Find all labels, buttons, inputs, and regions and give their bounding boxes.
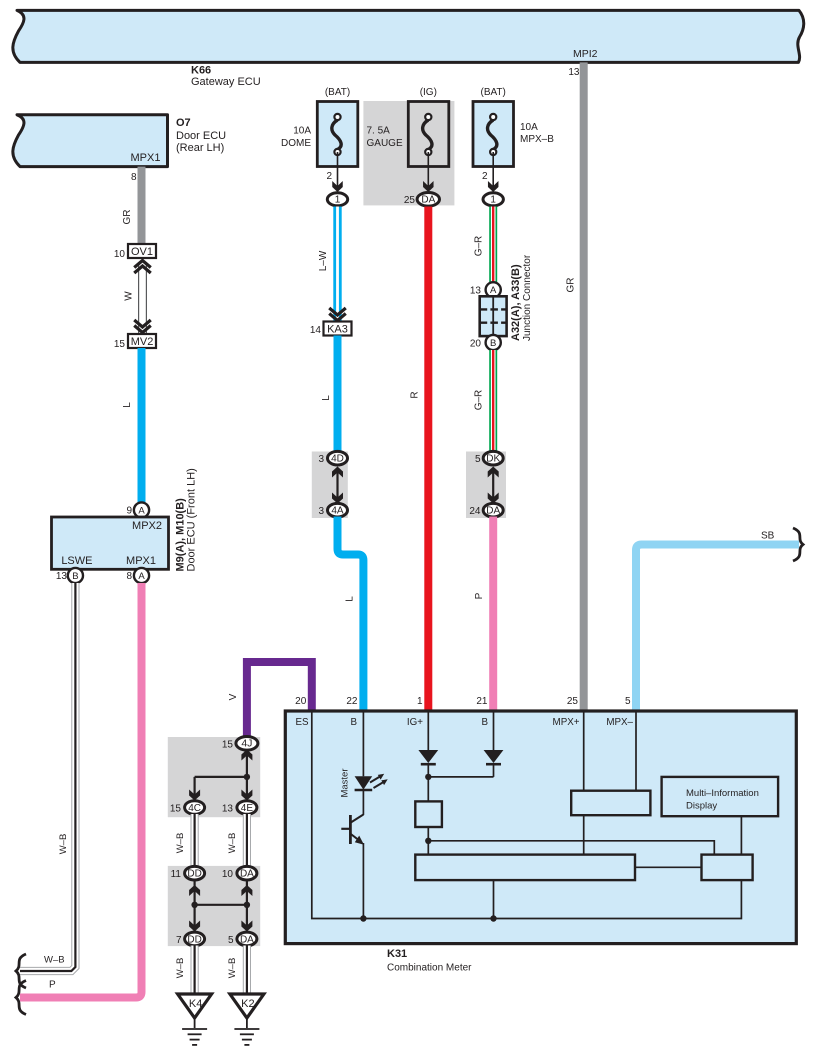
combination meter K31 bbox=[285, 711, 796, 974]
svg-text:B: B bbox=[490, 338, 496, 349]
svg-text:1: 1 bbox=[417, 696, 423, 707]
wire P (DA to meter pin 21) bbox=[474, 517, 493, 712]
svg-text:W–B: W–B bbox=[175, 958, 186, 979]
pin 13 (B) bbox=[56, 568, 83, 583]
LED Master bbox=[340, 768, 388, 797]
svg-text:Display: Display bbox=[686, 801, 717, 812]
wire G-R (junction to DK) bbox=[474, 350, 494, 453]
node U1 output bbox=[425, 827, 714, 855]
meter block Multi-Information Display bbox=[662, 777, 779, 855]
wire + arrow into connector 1 bbox=[332, 152, 343, 192]
ground K2 bbox=[230, 994, 264, 1018]
svg-text:B: B bbox=[350, 717, 357, 728]
svg-text:DD: DD bbox=[187, 869, 201, 880]
pin 20 (B junction) bbox=[470, 335, 501, 350]
wire break W-B bbox=[16, 954, 26, 988]
connector 25 (DA) bbox=[404, 193, 440, 207]
svg-text:11: 11 bbox=[171, 869, 182, 880]
connector arrows DK-DA bbox=[488, 467, 499, 504]
label K66 Gateway ECU bbox=[191, 65, 261, 89]
connector shading 4D-4A bbox=[312, 452, 348, 519]
svg-text:7. 5A: 7. 5A bbox=[367, 126, 391, 137]
svg-text:4D: 4D bbox=[331, 454, 344, 465]
svg-text:Junction Connector: Junction Connector bbox=[522, 254, 533, 341]
wire SB (right break to meter MPX-) bbox=[636, 531, 799, 712]
meter internal wire B to diode bbox=[493, 711, 495, 751]
pin 5 (DK) bbox=[475, 451, 503, 465]
wire G-R (fuse to junction connector) bbox=[474, 207, 494, 283]
wire W-B (4E to DA) bbox=[227, 814, 247, 867]
svg-text:22: 22 bbox=[346, 696, 358, 707]
door ECU O7 (Rear LH) bbox=[13, 115, 226, 167]
svg-text:MPX–B: MPX–B bbox=[520, 134, 554, 145]
svg-text:13: 13 bbox=[568, 67, 580, 78]
svg-text:P: P bbox=[49, 980, 56, 991]
pin 9 (A) bbox=[126, 502, 149, 517]
svg-text:Door ECU: Door ECU bbox=[176, 130, 226, 142]
svg-text:(Rear LH): (Rear LH) bbox=[176, 142, 224, 154]
svg-text:MPX1: MPX1 bbox=[126, 555, 156, 567]
svg-text:MPX2: MPX2 bbox=[132, 520, 162, 532]
svg-text:Gateway ECU: Gateway ECU bbox=[191, 76, 261, 88]
svg-text:K4: K4 bbox=[189, 998, 202, 1010]
meter terminal labels bbox=[296, 717, 634, 728]
svg-text:DK: DK bbox=[486, 454, 500, 465]
svg-text:K31: K31 bbox=[387, 948, 407, 960]
svg-text:20: 20 bbox=[295, 696, 307, 707]
meter internal wire IG+ to diode bbox=[427, 711, 429, 751]
wire P (door ECU MPX1 to left break) bbox=[20, 583, 142, 998]
ground K4 bbox=[178, 994, 212, 1018]
wire W-B (4C to DD) bbox=[175, 814, 195, 867]
meter internal wire B to LED bbox=[362, 711, 364, 776]
svg-text:ES: ES bbox=[296, 717, 310, 728]
svg-text:O7: O7 bbox=[176, 117, 191, 129]
svg-text:1: 1 bbox=[335, 195, 341, 206]
pin 10 (DA) bbox=[222, 866, 257, 880]
svg-text:R: R bbox=[410, 391, 421, 398]
connector arrows MV2 bbox=[134, 320, 151, 327]
svg-text:10A: 10A bbox=[520, 122, 538, 133]
fuse 10A MPX-B (BAT) bbox=[473, 87, 554, 167]
svg-text:G–R: G–R bbox=[474, 236, 485, 257]
connector 1 (MPX-B) bbox=[483, 193, 503, 206]
svg-text:13: 13 bbox=[470, 286, 482, 297]
svg-text:A: A bbox=[138, 571, 145, 582]
svg-text:IG+: IG+ bbox=[407, 717, 423, 728]
pin 15 (4C) bbox=[170, 801, 205, 815]
svg-text:13: 13 bbox=[222, 804, 234, 815]
svg-text:Combination Meter: Combination Meter bbox=[387, 963, 472, 974]
pin 3 (4A) bbox=[318, 503, 347, 517]
svg-text:W–B: W–B bbox=[227, 958, 238, 979]
svg-text:(BAT): (BAT) bbox=[325, 87, 350, 98]
svg-text:A: A bbox=[490, 285, 497, 296]
svg-text:9: 9 bbox=[126, 506, 132, 517]
meter internal wire MPX+ bbox=[583, 711, 585, 791]
svg-text:14: 14 bbox=[310, 325, 322, 336]
svg-text:GR: GR bbox=[122, 210, 133, 225]
connector OV1 pin 10 bbox=[114, 244, 156, 260]
meter block U4 (display driver) bbox=[635, 855, 753, 881]
connector MV2 pin 15 bbox=[114, 334, 156, 350]
svg-text:21: 21 bbox=[476, 696, 488, 707]
connector arrows KA3 bbox=[329, 308, 346, 315]
wire GR (O7 to OV1) bbox=[122, 167, 142, 244]
svg-text:L: L bbox=[122, 402, 133, 408]
svg-text:1: 1 bbox=[490, 195, 496, 206]
door ECU M9(A) M10(B) (Front LH) bbox=[52, 468, 198, 571]
svg-text:P: P bbox=[474, 592, 485, 599]
svg-text:GAUGE: GAUGE bbox=[367, 138, 403, 149]
svg-text:W: W bbox=[124, 291, 135, 301]
wire W-B (DD to K4) bbox=[175, 946, 195, 997]
connector arrows 4D-4A bbox=[332, 467, 343, 504]
svg-text:L–W: L–W bbox=[318, 250, 329, 271]
wire + arrow into connector DA bbox=[423, 152, 434, 192]
svg-text:OV1: OV1 bbox=[131, 246, 153, 258]
svg-text:DOME: DOME bbox=[281, 138, 311, 149]
svg-text:10: 10 bbox=[114, 249, 126, 260]
svg-text:(BAT): (BAT) bbox=[481, 87, 506, 98]
svg-text:MPX1: MPX1 bbox=[131, 152, 161, 164]
pin 5 (DA) bbox=[228, 932, 257, 946]
transistor Q (master warning) bbox=[341, 790, 366, 922]
svg-text:13: 13 bbox=[56, 571, 68, 582]
svg-text:LSWE: LSWE bbox=[61, 555, 92, 567]
svg-text:Master: Master bbox=[340, 768, 351, 797]
svg-text:A32(A), A33(B): A32(A), A33(B) bbox=[510, 264, 522, 341]
wire L (KA3 to 4D) bbox=[321, 336, 338, 454]
svg-text:4C: 4C bbox=[188, 803, 201, 814]
wiring 4J to 4C/4E bbox=[189, 750, 252, 802]
connector shading DK-DA bbox=[466, 452, 506, 519]
fuse 10A DOME (BAT) bbox=[281, 87, 358, 167]
meter internal wire MPX- bbox=[635, 711, 637, 791]
wire GR (bus to combination meter MPX+) bbox=[566, 62, 584, 711]
svg-text:W–B: W–B bbox=[58, 834, 69, 855]
diode D2 (B) bbox=[484, 750, 504, 777]
svg-text:10A: 10A bbox=[293, 126, 311, 137]
meter block U1 (regulator) bbox=[415, 801, 442, 827]
svg-text:3: 3 bbox=[318, 506, 324, 517]
node diode junction bbox=[425, 774, 493, 802]
gateway ECU bus K66 bbox=[13, 10, 804, 62]
svg-text:A: A bbox=[138, 505, 145, 516]
svg-text:W–B: W–B bbox=[227, 833, 238, 854]
wire L (4A to meter pin 22) bbox=[338, 517, 364, 712]
svg-text:L: L bbox=[321, 395, 332, 401]
wire + arrow into connector 1 bbox=[488, 152, 499, 192]
wiring DD/DA to ground connectors bbox=[189, 880, 252, 932]
svg-text:8: 8 bbox=[126, 571, 132, 582]
wire V (4J to meter ES) bbox=[228, 662, 312, 737]
svg-text:8: 8 bbox=[131, 172, 137, 183]
pin 13 (A junction) bbox=[470, 282, 501, 297]
svg-text:2: 2 bbox=[326, 171, 332, 182]
svg-text:DA: DA bbox=[421, 195, 435, 206]
svg-text:G–R: G–R bbox=[474, 390, 485, 411]
svg-text:4A: 4A bbox=[331, 506, 344, 517]
svg-text:DA: DA bbox=[240, 934, 254, 945]
meter block U3 (main CPU) bbox=[415, 855, 635, 922]
pin 15 (4J) bbox=[222, 737, 258, 751]
svg-text:24: 24 bbox=[469, 506, 481, 517]
pin 11 (DD) bbox=[171, 866, 205, 880]
svg-text:5: 5 bbox=[475, 454, 481, 465]
svg-text:3: 3 bbox=[318, 454, 324, 465]
svg-text:V: V bbox=[228, 693, 239, 700]
svg-text:15: 15 bbox=[222, 739, 234, 750]
wire L (MV2 to door ECU) bbox=[122, 348, 142, 506]
svg-text:(IG): (IG) bbox=[420, 87, 437, 98]
svg-text:L: L bbox=[345, 596, 356, 602]
wire W-B (DA to K2) bbox=[227, 946, 247, 997]
svg-text:10: 10 bbox=[222, 869, 234, 880]
meter internal wire ES to ground rail bbox=[312, 711, 742, 919]
svg-text:15: 15 bbox=[114, 339, 126, 350]
junction connector A32(A) A33(B) bbox=[480, 254, 533, 341]
wire R (GAUGE fuse to meter IG+) bbox=[410, 207, 429, 712]
svg-text:MPX–: MPX– bbox=[606, 717, 633, 728]
pin 7 (DD) bbox=[176, 932, 205, 946]
pin 8 (A) bbox=[126, 568, 149, 583]
svg-text:SB: SB bbox=[761, 531, 775, 542]
connector KA3 pin 14 bbox=[310, 322, 352, 337]
svg-text:W–B: W–B bbox=[175, 833, 186, 854]
connector shading DD-DA ground block bbox=[168, 866, 260, 946]
svg-text:Door ECU (Front LH): Door ECU (Front LH) bbox=[186, 468, 198, 571]
svg-text:KA3: KA3 bbox=[327, 323, 348, 335]
svg-text:DD: DD bbox=[187, 934, 201, 945]
pin 13 (4E) bbox=[222, 801, 257, 815]
svg-text:15: 15 bbox=[170, 804, 182, 815]
svg-text:K2: K2 bbox=[241, 998, 254, 1010]
svg-text:2: 2 bbox=[482, 171, 488, 182]
svg-text:25: 25 bbox=[567, 696, 579, 707]
svg-text:K66: K66 bbox=[191, 65, 211, 77]
pin 3 (4D) bbox=[318, 451, 347, 465]
svg-text:B: B bbox=[481, 717, 488, 728]
wire break SB bbox=[793, 528, 803, 561]
connector shading 4J-4C-4E bbox=[168, 737, 260, 817]
wire W-B (LSWE to left break) bbox=[20, 583, 75, 971]
svg-text:MPI2: MPI2 bbox=[573, 48, 598, 60]
svg-text:GR: GR bbox=[566, 278, 577, 293]
wire break P bbox=[16, 981, 26, 1015]
svg-text:5: 5 bbox=[228, 935, 234, 946]
svg-text:5: 5 bbox=[625, 696, 631, 707]
svg-text:B: B bbox=[72, 571, 78, 582]
svg-text:4E: 4E bbox=[241, 803, 254, 814]
fuse 7.5A GAUGE (IG) bbox=[367, 87, 449, 167]
svg-text:MPX+: MPX+ bbox=[553, 717, 580, 728]
connector shading GAUGE bbox=[363, 101, 454, 205]
connector arrows OV1 bbox=[134, 261, 151, 268]
meter block U2 (MPX transceiver) bbox=[571, 791, 650, 855]
diode D1 (IG+) bbox=[418, 750, 438, 777]
svg-text:DA: DA bbox=[486, 506, 500, 517]
wire W (OV1 to MV2) bbox=[124, 262, 143, 333]
svg-text:4J: 4J bbox=[241, 738, 252, 750]
svg-text:25: 25 bbox=[404, 195, 416, 206]
svg-text:DA: DA bbox=[240, 869, 254, 880]
svg-text:W–B: W–B bbox=[44, 955, 65, 966]
svg-text:7: 7 bbox=[176, 935, 182, 946]
svg-text:20: 20 bbox=[470, 339, 482, 350]
pin 24 (DA) bbox=[469, 503, 503, 517]
svg-text:Multi–Information: Multi–Information bbox=[686, 788, 759, 799]
svg-text:MV2: MV2 bbox=[131, 336, 154, 348]
connector 1 (DOME) bbox=[327, 193, 347, 206]
wire L-W (fuse to KA3) bbox=[318, 207, 338, 322]
